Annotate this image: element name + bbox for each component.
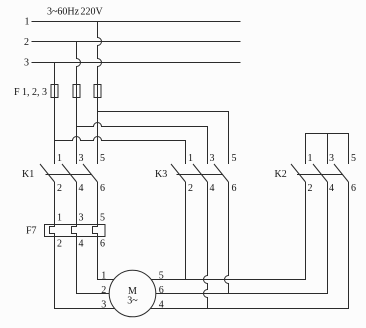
fuse F2 — [73, 85, 80, 98]
fuse F3 — [94, 85, 101, 98]
wire bus line 3 — [32, 62, 241, 64]
svg-text:5: 5 — [351, 153, 356, 164]
svg-text:1: 1 — [57, 153, 62, 164]
wire K2 star bridge — [306, 134, 349, 165]
svg-text:6: 6 — [351, 183, 356, 194]
svg-text:3: 3 — [79, 153, 84, 164]
wire phase3 drop — [54, 63, 56, 165]
svg-text:5: 5 — [100, 213, 105, 224]
contactor K3 pole 5-6 blade — [214, 164, 229, 182]
svg-text:3: 3 — [329, 153, 334, 164]
wire motor terminal 6 to K2-4 — [156, 182, 328, 294]
svg-text:5: 5 — [232, 153, 237, 164]
contactor K2 pole 1-2 blade — [291, 164, 306, 182]
svg-text:4: 4 — [159, 300, 164, 311]
svg-text:1: 1 — [101, 271, 106, 282]
svg-text:3~60Hz: 3~60Hz — [47, 7, 80, 18]
svg-text:3~: 3~ — [127, 295, 138, 306]
wire K1-6 through F7 heater to motor terminal 1 — [93, 182, 115, 280]
fuse F1 — [51, 85, 58, 98]
contactor K3 pole 1-2 blade — [171, 164, 186, 182]
svg-text:4: 4 — [79, 183, 84, 194]
wire bus line 1 — [32, 21, 241, 23]
svg-text:2: 2 — [308, 183, 313, 194]
overload relay F7 box — [45, 225, 106, 237]
contactor K1 link bar — [46, 174, 92, 176]
wire branch phase2 to K3 pole 3 with hop — [77, 123, 208, 165]
svg-text:3: 3 — [210, 153, 215, 164]
svg-text:6: 6 — [232, 183, 237, 194]
svg-text:1: 1 — [57, 213, 62, 224]
contactor K2 link bar — [297, 174, 343, 176]
svg-text:1: 1 — [188, 153, 193, 164]
svg-text:2: 2 — [57, 183, 62, 194]
svg-text:220V: 220V — [81, 7, 104, 18]
contactor K1 pole 1-2 blade — [40, 164, 55, 182]
svg-text:4: 4 — [210, 183, 215, 194]
svg-text:2: 2 — [24, 37, 29, 48]
contactor K3 link bar — [177, 174, 224, 176]
svg-text:6: 6 — [159, 285, 164, 296]
wire bus line 2 — [32, 41, 241, 43]
svg-text:2: 2 — [188, 183, 193, 194]
wire branch phase3 to K3 pole 1 with hops — [55, 137, 186, 165]
contactor K2 pole 3-4 blade — [313, 164, 328, 182]
svg-text:K2: K2 — [275, 169, 287, 180]
wire K3-2 to motor terminal 5 — [185, 182, 187, 280]
svg-text:6: 6 — [100, 183, 105, 194]
contactor K3 pole 3-4 blade — [193, 164, 208, 182]
svg-text:1: 1 — [308, 153, 313, 164]
svg-text:5: 5 — [159, 271, 164, 282]
contactor K1 pole 5-6 blade — [83, 164, 98, 182]
svg-text:4: 4 — [329, 183, 334, 194]
wire K3-6 to motor terminal 6 with hop — [225, 182, 229, 294]
svg-text:2: 2 — [57, 239, 62, 250]
wire phase2 drop with hop over line 3 — [77, 42, 81, 165]
svg-text:K1: K1 — [22, 169, 34, 180]
wire K1-2 through F7 heater to motor terminal 3 — [50, 182, 115, 309]
svg-text:F 1, 2, 3: F 1, 2, 3 — [14, 87, 47, 98]
svg-text:3: 3 — [101, 300, 106, 311]
svg-text:3: 3 — [24, 58, 29, 69]
svg-text:K3: K3 — [155, 169, 167, 180]
motor M 3~ — [109, 270, 156, 317]
wire branch phase1 to K3 pole 5 — [98, 112, 229, 165]
wire K1-4 through F7 heater to motor terminal 2 — [72, 182, 110, 294]
svg-text:6: 6 — [100, 239, 105, 250]
contactor K2 pole 5-6 blade — [334, 164, 349, 182]
svg-text:4: 4 — [79, 239, 84, 250]
contactor K1 pole 3-4 blade — [62, 164, 77, 182]
svg-text:1: 1 — [25, 16, 30, 27]
wire phase1 drop with hops over lines 2,3 — [98, 22, 102, 165]
svg-text:2: 2 — [101, 285, 106, 296]
wire K3-4 to motor terminal 4 with hops — [204, 182, 208, 309]
svg-text:F7: F7 — [26, 226, 37, 237]
svg-text:5: 5 — [100, 153, 105, 164]
svg-text:3: 3 — [79, 213, 84, 224]
wire motor terminal 4 to K2-6 — [151, 182, 349, 309]
wire motor terminal 5 to K2-2 — [151, 182, 306, 280]
